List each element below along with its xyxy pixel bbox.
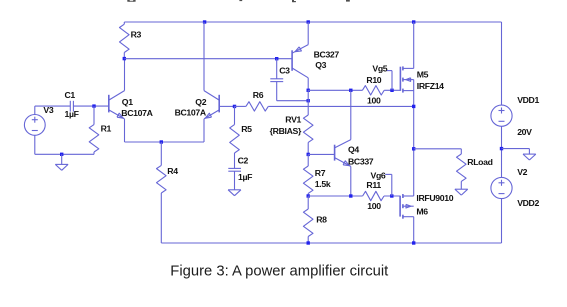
node C3 to RV1 (307, 99, 310, 102)
svg-text:RLoad: RLoad (467, 157, 492, 167)
wire R1 bottom lead (93, 152, 95, 154)
svg-text:R6: R6 (253, 90, 264, 100)
label C2 (238, 155, 249, 165)
wire bottom ground rail (161, 242, 501, 244)
wire ground stub (61, 154, 63, 164)
resistor R6 (246, 102, 268, 111)
svg-text:100: 100 (367, 201, 381, 211)
svg-text:Vg6: Vg6 (371, 170, 386, 180)
svg-text:BC107A: BC107A (175, 107, 207, 117)
svg-text:M5: M5 (417, 69, 429, 79)
wire Vg5 stub (387, 71, 392, 91)
label R8 (316, 215, 327, 225)
node M6 drain to rail (412, 241, 415, 244)
ground input (55, 164, 68, 170)
label Vg6 (371, 170, 386, 180)
wire Q4 base (308, 153, 334, 155)
svg-text:C2: C2 (238, 155, 249, 165)
label C1 value 1uF (65, 109, 79, 119)
wire Q2 base (219, 105, 234, 107)
mosfet M6 body stub (403, 205, 414, 207)
label C2 value 1uF (238, 172, 252, 182)
transistor Q3 base bar (291, 50, 293, 71)
resistor R8 (303, 209, 313, 237)
label Vg5 (372, 64, 387, 74)
label Q4 (348, 145, 359, 155)
node Vg6 tap (390, 194, 393, 197)
svg-text:IRFU9010: IRFU9010 (416, 193, 453, 203)
voltage source V2 (491, 177, 512, 198)
label M6 IRFU9010 (416, 193, 453, 203)
voltage source VDD1 (491, 105, 512, 126)
wire R4 top lead (160, 142, 162, 165)
node ground tap (60, 153, 63, 156)
transistor Q2 base bar (218, 95, 220, 113)
node Q2 collector to rail (203, 20, 206, 23)
svg-text:R3: R3 (131, 30, 142, 40)
svg-text:R5: R5 (241, 124, 252, 134)
wire emitter rail (125, 141, 205, 143)
node Q4 emitter tap (349, 194, 352, 197)
label Q1 BC107A (121, 108, 153, 118)
wire R1 top lead (93, 106, 95, 125)
label RV1 value RBIAS (270, 126, 302, 136)
capacitor C3 (270, 79, 283, 82)
resistor R7 (303, 166, 313, 193)
label R10 value 100 (367, 95, 381, 105)
wire Q1 emitter down (124, 119, 126, 142)
svg-text:{RBIAS}: {RBIAS} (270, 126, 302, 136)
label R7 (315, 168, 326, 178)
label R10 (366, 75, 381, 85)
mosfet M6 drain stub (403, 217, 414, 243)
transistor Q4 base bar (334, 145, 336, 161)
wire R8 top lead (307, 196, 309, 209)
label R11 (366, 180, 381, 190)
wire R4 bottom lead (160, 193, 162, 243)
transistor Q2 emitter (204, 110, 219, 119)
label C1 (65, 90, 76, 100)
node Q4 collector top (349, 89, 352, 92)
mosfet M5 body stub (403, 79, 414, 81)
ground supply mid (523, 154, 536, 160)
wire C1 to node A (73, 105, 108, 107)
transistor Q4 emitter arrow (343, 161, 349, 166)
wire R5 top lead (234, 106, 236, 124)
label VDD1 (517, 95, 539, 105)
label Q2 BC107A (175, 107, 207, 117)
wire R8 bottom lead (307, 237, 309, 244)
resistor R11 (363, 191, 384, 200)
label V2 (517, 167, 527, 177)
wire RLoad top (414, 149, 462, 154)
label R3 (131, 30, 142, 40)
mosfet M6 source stub (403, 195, 414, 197)
node R8 to ground rail (307, 241, 310, 244)
node Q3 emitter to rail (307, 20, 310, 23)
svg-text:R7: R7 (315, 168, 326, 178)
wire RV1 bottom lead (307, 142, 309, 154)
caption figure 3 (170, 264, 388, 280)
transistor Q2 collector (204, 22, 219, 100)
mosfet M6 body arrow (406, 204, 411, 208)
node RV1 / R7 / Q4 base (307, 153, 310, 156)
mosfet M5 body arrow (406, 78, 411, 82)
wire Q1 collector to Q3 base (124, 58, 292, 60)
label M5 IRFZ14 (417, 81, 444, 91)
node RLoad tap (412, 147, 415, 150)
label M5 (417, 69, 429, 79)
label Q3 BC327 (314, 50, 340, 60)
wire supply mid to ground (502, 149, 530, 155)
svg-text:RV1: RV1 (285, 114, 301, 124)
svg-text:VDD2: VDD2 (517, 198, 539, 208)
svg-text:100: 100 (367, 95, 381, 105)
ground below RLoad (455, 189, 468, 195)
wire V3 top lead (34, 106, 36, 114)
svg-text:C3: C3 (279, 66, 290, 76)
node R4 tap (160, 140, 163, 143)
svg-text:Q4: Q4 (348, 145, 359, 155)
transistor Q3 emitter arrow (295, 47, 301, 52)
wire R10 to M5 gate (384, 89, 400, 91)
svg-text:Q3: Q3 (315, 60, 326, 70)
label Q2 (195, 97, 206, 107)
mosfet M5 drain stub (403, 22, 414, 68)
label R6 (253, 90, 264, 100)
label R7 value 1.5k (315, 179, 331, 189)
svg-text:R1: R1 (101, 124, 112, 134)
svg-text:BC337: BC337 (348, 156, 374, 166)
svg-text:R11: R11 (366, 180, 381, 190)
transistor Q3 emitter (292, 22, 308, 53)
node Vg5 tap (390, 89, 393, 92)
wire Q3 collector to R10 (308, 89, 362, 91)
wire C3 top lead (276, 59, 278, 79)
wire R7 bottom lead (307, 193, 309, 196)
label RLoad (467, 157, 492, 167)
mosfet M6 channel dashes (402, 194, 404, 219)
label V3 (43, 105, 53, 115)
wire top supply rail (124, 21, 501, 23)
mosfet M6 gate bar (399, 196, 401, 217)
transistor Q2 emitter arrow (205, 113, 211, 118)
resistor R10 (362, 86, 384, 95)
svg-text:V2: V2 (517, 167, 527, 177)
node R3 bottom / Q1 collector (123, 57, 126, 60)
node Q2 base / R5 / R6 (233, 105, 236, 108)
wire V3 bottom lead (34, 135, 36, 154)
wire M5 source down (413, 80, 415, 196)
transistor Q4 emitter (335, 158, 351, 167)
svg-text:R10: R10 (366, 75, 381, 85)
label Q1 (122, 97, 133, 107)
node supply mid (500, 147, 503, 150)
svg-text:1µF: 1µF (238, 172, 252, 182)
wire Q2 base to R6 (235, 105, 246, 107)
transistor Q1 collector (109, 59, 125, 101)
voltage source V3 (24, 115, 45, 136)
svg-text:20V: 20V (517, 127, 532, 137)
capacitor C2 (228, 168, 241, 171)
node mid rail to output (412, 105, 415, 108)
svg-text:R8: R8 (316, 215, 327, 225)
wire right rail upper (501, 22, 503, 105)
svg-text:R4: R4 (167, 166, 178, 176)
svg-text:C1: C1 (65, 90, 76, 100)
resistor R3 (120, 22, 130, 59)
node R7 / R8 / R11 (307, 194, 310, 197)
label RV1 (285, 114, 301, 124)
node A input node (92, 104, 95, 107)
wire RV1 top lead (307, 90, 309, 115)
wire Q2 emitter down (203, 119, 205, 142)
svg-text:1.5k: 1.5k (315, 179, 331, 189)
svg-text:Figure 3: A power amplifier ci: Figure 3: A power amplifier circuit (170, 264, 388, 280)
svg-text:IRFZ14: IRFZ14 (417, 81, 444, 91)
resistor RV1 (303, 115, 313, 142)
node C3 top tap (275, 57, 278, 60)
svg-text:BC107A: BC107A (121, 108, 153, 118)
wire RLoad bottom lead (460, 181, 462, 189)
svg-text:M6: M6 (416, 207, 428, 217)
wire mid rail R6 to output (268, 105, 413, 107)
wire Vg6 stub (385, 174, 392, 196)
mosfet M5 channel dashes (402, 66, 404, 92)
wire C3 bottom lead (277, 82, 309, 101)
label R4 (167, 166, 178, 176)
capacitor C1 (70, 101, 73, 112)
transistor Q1 emitter arrow (117, 113, 123, 118)
wire VDD1 to mid node (501, 126, 503, 177)
label Q3 (315, 60, 326, 70)
label R1 (101, 124, 112, 134)
wire R11 to M6 gate (384, 195, 400, 197)
ground below C2 (228, 190, 241, 196)
mosfet M5 gate bar (399, 67, 401, 91)
label V2 VDD2 (517, 198, 539, 208)
transistor Q4 collector (335, 90, 351, 148)
wire V3 to C1 (35, 105, 71, 107)
label M6 (416, 207, 428, 217)
wire R5 to C2 (234, 153, 236, 168)
node Q3 collector (307, 89, 310, 92)
resistor RLoad (457, 154, 467, 181)
wire Q4 emitter down (350, 166, 352, 196)
svg-text:Q2: Q2 (195, 97, 206, 107)
wire bottom left return (35, 153, 94, 155)
transistor Q1 emitter (109, 110, 125, 119)
cropped caption descenders (127, 0, 349, 2)
resistor R1 (89, 125, 99, 152)
label C3 (279, 66, 290, 76)
wire R7 node to R11 (308, 195, 362, 197)
label R5 (241, 124, 252, 134)
svg-text:1µF: 1µF (65, 109, 79, 119)
wire R7 top lead (307, 154, 309, 166)
label R11 value 100 (367, 201, 381, 211)
svg-text:VDD1: VDD1 (517, 95, 539, 105)
wire V2 bottom (501, 199, 503, 243)
label VDD1 value 20V (517, 127, 532, 137)
svg-text:Q1: Q1 (122, 97, 133, 107)
transistor Q3 collector (292, 68, 308, 90)
node M5 drain to rail (412, 20, 415, 23)
mosfet M5 source stub (403, 90, 414, 92)
resistor R4 (157, 165, 167, 193)
label Q4 BC337 (348, 156, 374, 166)
svg-text:Vg5: Vg5 (372, 64, 387, 74)
resistor R5 (230, 125, 240, 153)
wire C2 bottom lead (234, 171, 236, 190)
svg-text:BC327: BC327 (314, 50, 340, 60)
transistor Q1 base bar (108, 95, 110, 113)
